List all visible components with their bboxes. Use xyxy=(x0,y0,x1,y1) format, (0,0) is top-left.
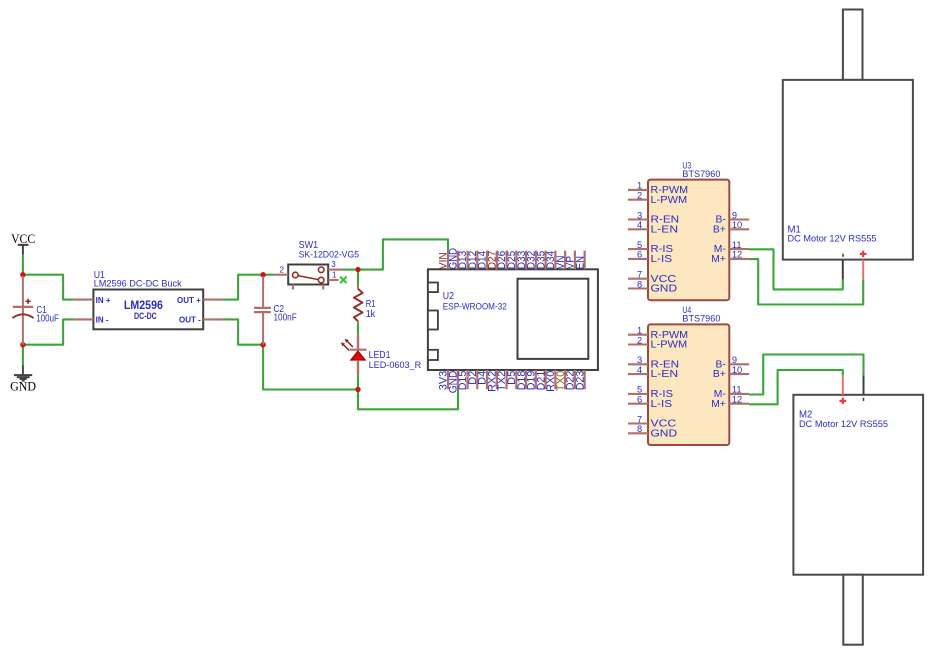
pin VN (top) of U2 xyxy=(555,251,567,270)
pin 1 stub of SW1 xyxy=(328,279,338,281)
svg-text:7: 7 xyxy=(637,270,642,280)
motor M1 plus sign xyxy=(860,251,867,257)
pin 7 VCC of U3 xyxy=(628,270,677,285)
pin D26 (top) of U2 xyxy=(496,251,508,270)
svg-text:L-IS: L-IS xyxy=(651,254,673,265)
motor M2 positive terminal pin xyxy=(842,375,844,394)
U2 side connector tabs xyxy=(428,283,438,361)
wire VCC stem to junction xyxy=(22,254,24,275)
power symbol GND (earth) xyxy=(10,365,36,394)
svg-text:L-PWM: L-PWM xyxy=(651,340,688,351)
module U2 ESP-WROOM-32 body xyxy=(428,269,598,370)
wire U3 pin 12 M+ to motor M1 + terminal xyxy=(749,259,863,304)
mounting stubs of SW1 xyxy=(293,285,323,290)
svg-text:11: 11 xyxy=(732,385,742,395)
svg-text:B+: B+ xyxy=(713,224,726,235)
svg-text:DC Motor 12V RS555: DC Motor 12V RS555 xyxy=(788,234,877,245)
svg-text:SK-12D02-VG5: SK-12D02-VG5 xyxy=(299,249,360,260)
svg-text:8: 8 xyxy=(637,279,642,289)
pin 5 R-IS of U3 xyxy=(628,240,673,255)
svg-text:100nF: 100nF xyxy=(274,313,297,324)
svg-text:M+: M+ xyxy=(711,254,726,265)
svg-text:BTS7960: BTS7960 xyxy=(682,313,720,324)
wire U4 pin 12 M+ to motor M2 + terminal xyxy=(749,370,843,404)
svg-text:11: 11 xyxy=(732,240,742,250)
pin IN+ stub of U1 xyxy=(74,299,94,301)
pin D35 (top) of U2 xyxy=(535,251,547,270)
motor M1 shaft xyxy=(843,10,863,80)
wire C1 bottom junction to GND symbol xyxy=(22,345,24,366)
wire C2 bottom junction down to LED bottom junction xyxy=(263,345,358,390)
svg-text:2: 2 xyxy=(280,266,285,275)
pin 10 B+ of U3 xyxy=(713,220,749,235)
pin 9 B- of U4 xyxy=(716,355,750,370)
pin IN- stub of U1 xyxy=(74,318,94,320)
pin VP (top) of U2 xyxy=(565,251,577,270)
motor M2 plus sign xyxy=(839,398,846,404)
pin D25 (top) of U2 xyxy=(506,251,518,270)
wire R1 bottom to LED1 anode xyxy=(357,324,359,335)
LED LED1 body xyxy=(350,335,367,375)
svg-text:12: 12 xyxy=(732,250,742,260)
pin 4 L-EN of U3 xyxy=(628,220,678,235)
svg-text:L-EN: L-EN xyxy=(651,369,679,380)
pin OUT- stub of U1 xyxy=(203,318,223,320)
svg-text:9: 9 xyxy=(732,210,737,220)
pin D4 (bottom) of U2 xyxy=(477,370,489,389)
pin 2 L-PWM of U4 xyxy=(628,335,687,350)
svg-text:3: 3 xyxy=(637,355,642,365)
wire U4 pin 11 M- to motor M2 terminal xyxy=(749,355,863,395)
pin D32 (top) of U2 xyxy=(526,251,538,270)
pin 3 R-EN of U4 xyxy=(628,355,679,370)
svg-text:100uF: 100uF xyxy=(36,314,58,325)
svg-text:6: 6 xyxy=(637,250,642,260)
power symbol VCC xyxy=(11,232,35,255)
svg-text:GND: GND xyxy=(10,380,36,394)
motor M1 minus tick xyxy=(842,254,844,257)
svg-text:OUT +: OUT + xyxy=(177,296,201,305)
pin 9 B- of U3 xyxy=(716,210,750,225)
pin D21 (bottom) of U2 xyxy=(535,370,547,390)
svg-text:L-IS: L-IS xyxy=(651,399,673,410)
pin D19 (bottom) of U2 xyxy=(526,370,538,390)
pin 2 L-PWM of U3 xyxy=(628,191,687,206)
svg-text:EN: EN xyxy=(574,256,586,269)
junction node SW1 pin3 / R1 / ESP VIN xyxy=(355,267,360,272)
junction node LED bottom / GND rail xyxy=(355,387,360,392)
wire VCC junction to U1 IN+ xyxy=(23,275,74,300)
pin 3 stub of SW1 xyxy=(328,269,342,271)
motor M2 negative terminal pin xyxy=(863,375,865,394)
wire LED1 cathode lead to bottom junction xyxy=(357,374,359,389)
svg-text:L-EN: L-EN xyxy=(651,224,679,235)
svg-text:L-PWM: L-PWM xyxy=(651,195,688,206)
pin TX0 (bottom) of U2 xyxy=(555,370,567,391)
svg-text:B+: B+ xyxy=(713,369,726,380)
pin 10 B+ of U4 xyxy=(713,365,749,380)
pin TX2 (bottom) of U2 xyxy=(496,370,508,391)
pin 1 R-PWM of U4 xyxy=(628,326,688,341)
svg-text:4: 4 xyxy=(637,365,642,375)
wire C1 bottom junction to U1 IN- xyxy=(23,319,74,344)
LED1 emission arrows xyxy=(341,339,353,351)
pin D27 (top) of U2 xyxy=(487,251,499,270)
svg-text:1: 1 xyxy=(637,326,642,336)
pin D33 (top) of U2 xyxy=(516,251,528,270)
pin D12 (top) of U2 xyxy=(467,251,479,270)
svg-text:3: 3 xyxy=(331,260,336,269)
pin 3 R-EN of U3 xyxy=(628,210,679,225)
pin RX2 (bottom) of U2 xyxy=(487,370,499,392)
pin RX0 (bottom) of U2 xyxy=(545,370,557,392)
svg-text:M+: M+ xyxy=(711,399,726,410)
pin D2 (bottom) of U2 xyxy=(467,370,479,389)
pin 12 M+ of U3 xyxy=(711,250,749,265)
pin 2 stub of SW1 xyxy=(274,274,289,276)
svg-text:7: 7 xyxy=(637,414,642,424)
pin 11 M- of U4 xyxy=(714,385,749,400)
switch SW1 body xyxy=(288,265,328,285)
pin 11 M- of U3 xyxy=(714,240,749,255)
pin EN (top) of U2 xyxy=(574,251,586,270)
pin GND (top) of U2 xyxy=(447,248,459,270)
resistor R1 zigzag xyxy=(354,285,363,324)
wire LED bottom junction to ESP32 GND pin xyxy=(358,389,458,409)
motor M1 negative terminal pin xyxy=(842,260,844,280)
junction node OUT- / C2 bottom xyxy=(260,342,265,347)
svg-text:BTS7960: BTS7960 xyxy=(682,168,720,179)
pin 1 R-PWM of U3 xyxy=(628,181,688,196)
pin D5 (bottom) of U2 xyxy=(506,370,518,389)
motor M1 positive terminal pin xyxy=(862,260,864,280)
svg-text:6: 6 xyxy=(637,395,642,405)
pin D15 (bottom) of U2 xyxy=(457,370,469,390)
motor M2 body xyxy=(793,395,923,575)
junction node GND / C1 bottom xyxy=(20,342,25,347)
pin OUT+ stub of U1 xyxy=(203,299,223,301)
switch SW1 contacts and lever xyxy=(293,267,325,283)
pin GND (bottom) of U2 xyxy=(447,370,459,393)
svg-text:1: 1 xyxy=(637,181,642,191)
junction node OUT+ / C2 top xyxy=(260,272,265,277)
svg-text:VCC: VCC xyxy=(11,232,35,246)
svg-text:10: 10 xyxy=(732,365,742,375)
pin 5 R-IS of U4 xyxy=(628,385,673,400)
driver U3 BTS7960 body xyxy=(648,180,729,301)
pin 6 L-IS of U4 xyxy=(628,395,672,410)
svg-text:DC Motor 12V RS555: DC Motor 12V RS555 xyxy=(799,419,888,430)
svg-text:8: 8 xyxy=(637,424,642,434)
svg-text:DC-DC: DC-DC xyxy=(134,311,157,321)
pin D34 (top) of U2 xyxy=(545,251,557,270)
svg-text:D23: D23 xyxy=(574,371,586,391)
svg-text:10: 10 xyxy=(732,220,742,230)
motor M2 shaft xyxy=(843,575,863,645)
svg-text:1k: 1k xyxy=(366,309,376,320)
svg-text:ESP-WROOM-32: ESP-WROOM-32 xyxy=(443,301,507,312)
svg-text:OUT -: OUT - xyxy=(179,316,201,325)
svg-text:9: 9 xyxy=(732,355,737,365)
wire U1 OUT- to C2 bottom junction xyxy=(223,319,263,344)
svg-text:2: 2 xyxy=(637,335,642,345)
motor M2 minus tick xyxy=(863,398,865,401)
pin VIN (top) of U2 xyxy=(438,251,450,270)
wire switch node down to R1 top xyxy=(357,270,359,286)
pin D14 (top) of U2 xyxy=(477,251,489,270)
svg-text:5: 5 xyxy=(637,240,642,250)
U2 shield rectangle xyxy=(518,279,589,359)
pin 3V3 (bottom) of U2 xyxy=(438,370,450,390)
capacitor C2 body xyxy=(254,277,271,345)
pin 12 M+ of U4 xyxy=(711,395,749,410)
svg-text:2: 2 xyxy=(637,191,642,201)
pin D18 (bottom) of U2 xyxy=(516,370,528,390)
op-amp-style module U1 LM2596 DC-DC buck body xyxy=(93,290,203,330)
junction node VCC / C1 top xyxy=(20,272,25,277)
svg-text:GND: GND xyxy=(651,428,678,439)
wire U1 OUT+ to SW1 pin 2 through C2 top junction xyxy=(223,275,274,300)
capacitor C1 polarized body xyxy=(12,276,33,345)
svg-text:IN -: IN - xyxy=(96,316,109,325)
pin D23 (bottom) of U2 xyxy=(574,370,586,390)
no-connect X on SW1 pin 1 xyxy=(340,277,347,284)
pin D13 (top) of U2 xyxy=(457,251,469,270)
wire U3 pin 11 M- to motor M1 terminal xyxy=(749,249,843,289)
pin 8 GND of U4 xyxy=(628,424,677,439)
pin 7 VCC of U4 xyxy=(628,414,677,429)
svg-text:4: 4 xyxy=(637,220,642,230)
pin D22 (bottom) of U2 xyxy=(565,370,577,390)
pin 4 L-EN of U4 xyxy=(628,365,678,380)
motor M1 body xyxy=(783,80,913,260)
pin 6 L-IS of U3 xyxy=(628,250,672,265)
wire switch node to ESP32 VIN pin xyxy=(358,239,448,269)
svg-text:LED-0603_R: LED-0603_R xyxy=(369,360,422,371)
svg-text:LM2596 DC-DC Buck: LM2596 DC-DC Buck xyxy=(94,279,182,290)
svg-text:GND: GND xyxy=(651,284,678,295)
svg-text:IN +: IN + xyxy=(96,296,111,305)
wire SW1 pin 3 to node xyxy=(343,269,359,271)
svg-text:U2: U2 xyxy=(443,291,454,302)
svg-text:12: 12 xyxy=(732,395,742,405)
pin 8 GND of U3 xyxy=(628,279,677,294)
svg-text:1: 1 xyxy=(332,270,337,279)
driver U4 BTS7960 body xyxy=(648,324,729,445)
svg-text:3: 3 xyxy=(637,210,642,220)
svg-text:5: 5 xyxy=(637,385,642,395)
